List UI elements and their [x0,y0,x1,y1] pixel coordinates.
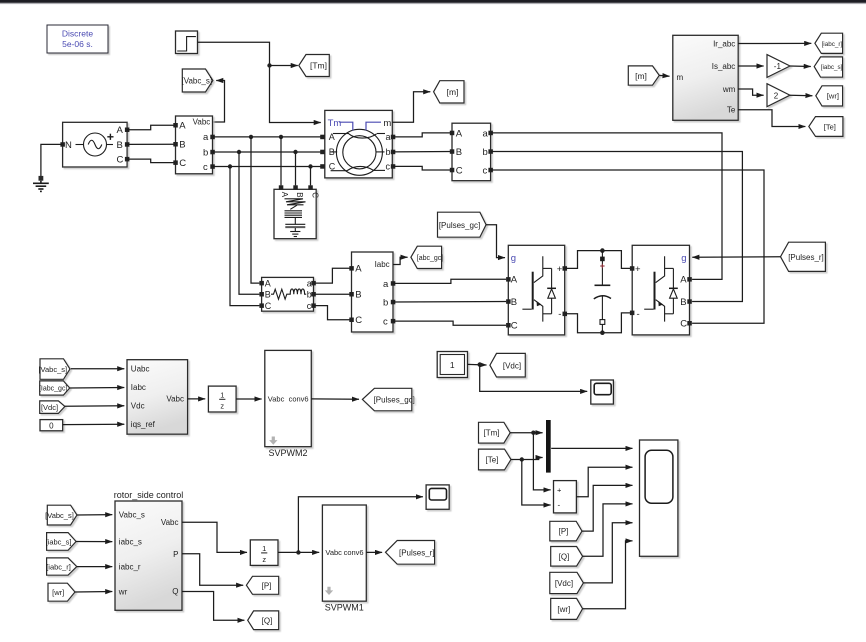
svg-text:A: A [456,128,463,139]
wire rotor control P to [P] [182,554,243,585]
svg-text:[Te]: [Te] [824,123,836,132]
svg-text:A: A [680,275,687,286]
wire to Vdc [65,405,124,407]
svg-text:[Q]: [Q] [262,616,273,625]
gain -1 [767,55,790,78]
svg-text:Vdc: Vdc [131,402,145,411]
wire machine m to [m] tag [392,92,430,122]
svg-text:a: a [203,132,209,143]
svg-text:[wr]: [wr] [827,92,839,101]
svg-text:b: b [203,147,208,158]
wire to wr [75,591,112,594]
from tag [wr] scope [551,598,583,619]
svg-text:2: 2 [774,91,779,100]
svg-text:B: B [456,147,462,158]
svg-text:[Tm]: [Tm] [484,429,500,438]
machine Tm lead [339,122,353,130]
svg-text:g: g [681,253,686,264]
svg-text:[Pulses_r]: [Pulses_r] [788,253,824,262]
wire machine c to meas2 C [392,166,452,170]
goto tag [P] lower [246,576,278,594]
wire to iabc_s [76,541,112,543]
wire [wr] to scope input 6 [583,541,633,609]
svg-text:A: A [179,121,186,132]
goto tag [wr] [816,86,843,106]
wire meas3 c to grid converter C [393,321,506,325]
wire unit delay to SVPWM2 [236,398,262,400]
svg-text:[Tm]: [Tm] [310,61,327,71]
svg-text:-: - [558,309,561,320]
svg-text:1: 1 [220,390,224,399]
grid side converter block [508,245,564,335]
wire meas3 Iabc to [abc_gc] tag [393,257,408,264]
grid converter IGBT diode icon [522,256,556,321]
svg-text:0: 0 [49,421,54,430]
source port labels [65,125,124,165]
svg-text:m: m [677,73,684,82]
svg-text:+: + [557,264,563,275]
from tag [P] scope [550,521,582,541]
goto tag [Tm] [299,55,330,77]
wire branch to scope3 [298,497,423,553]
svg-text:1: 1 [450,360,455,370]
svg-text:iabc_r: iabc_r [119,563,141,572]
wire tap c to RL filter C [230,167,259,306]
svg-text:[Te]: [Te] [486,456,499,465]
from tag [Iabc_gc] [39,381,70,395]
svg-text:Te: Te [727,106,736,115]
junction dot delay branch [296,550,300,554]
wire SVPWM1 to [Pulses_r] [366,551,382,553]
wire [m] to demux [659,74,669,77]
three-phase VI measurement block 2 [452,123,491,181]
svg-text:B: B [355,290,361,301]
gain 2 [767,84,790,107]
from tag [iabc_r] [46,558,77,575]
svg-text:C: C [265,301,272,311]
svg-text:Is_abc: Is_abc [712,62,736,71]
dc link top wire [565,251,633,269]
meas3 port squares [349,266,395,323]
svg-text:[m]: [m] [447,87,459,97]
grounding transformer rotated labels A B C [280,192,319,199]
svg-text:[iabc_r]: [iabc_r] [46,563,71,572]
asynchronous machine block [325,110,393,177]
wire to Iabc [70,387,125,390]
svg-text:conv6: conv6 [289,395,309,404]
from tag [Vabc_s] grid control [38,359,70,380]
svg-text:+: + [557,486,562,495]
wire bus a [213,136,323,138]
wire to iabc_r [77,566,112,568]
SVPWM1 subsystem [322,505,366,601]
rotor converter port labels [635,253,687,330]
junction dot Te branch [520,457,524,461]
meas1 port squares [173,123,215,169]
dc link bottom wire [565,313,633,333]
wire meas3 b to grid converter B [393,301,506,304]
step source block [176,31,198,54]
svg-text:B: B [329,147,335,157]
machine port squares [320,135,395,169]
svg-text:A: A [117,125,124,136]
svg-text:C: C [329,162,336,172]
goto tag [m] [434,81,464,103]
grounding transformer winding icon [285,199,306,237]
wire SVPWM2 to [Pulses_gc] [311,398,359,400]
svg-text:[Vabc_s]: [Vabc_s] [45,511,74,520]
svg-text:Iabc: Iabc [375,260,390,269]
svg-text:Iabc: Iabc [131,383,146,392]
svg-text:conv6: conv6 [344,548,364,557]
goto tag [abc_gc] [411,246,443,268]
junction dots bus a [249,135,253,139]
wire [Pulses_gc] to grid converter g [486,225,505,258]
wire unit delay 2 to SVPWM1 [278,551,319,553]
svg-text:[Pulses_gc]: [Pulses_gc] [439,221,480,230]
wire source B to meas [127,143,175,145]
wire Ir_abc to [iabc_r] [738,42,811,44]
title bar [0,0,866,4]
goto tag [Te] [809,117,843,137]
wire [Tm] to mux [510,432,542,434]
svg-text:C: C [511,321,518,332]
svg-text:Vabc: Vabc [193,118,211,127]
svg-text:C: C [456,165,463,176]
svg-text:Ir_abc: Ir_abc [713,40,735,49]
machine m lead [366,122,381,130]
svg-text:a: a [483,128,489,139]
svg-text:a: a [307,278,312,288]
wire Vabc measurement to [Vabc_s] tag [213,81,225,123]
three-phase VI measurement block 3 Iabc [352,252,394,332]
svg-text:B: B [511,297,517,308]
svg-text:[Pulses_gc]: [Pulses_gc] [374,396,415,405]
svg-text:rotor_side control: rotor_side control [114,490,184,500]
svg-text:c: c [483,165,488,176]
svg-text:Discrete: Discrete [62,28,93,38]
svg-text:[iabc_s]: [iabc_s] [46,537,72,546]
wire RL a to meas3 A [314,268,352,283]
svg-text:a: a [386,132,391,142]
wire control Vabc to unit delay [188,398,206,400]
capacitor port markers [600,257,605,262]
rotor converter port squares [630,266,692,325]
svg-text:A: A [280,192,289,198]
unit delay block 2 [250,540,278,566]
svg-text:[Vdc]: [Vdc] [555,579,573,588]
wire branch to [Tm] [270,65,298,67]
machine stubs [331,134,386,171]
wire display branch to scope2 [480,365,588,392]
scope block 2 [591,380,614,404]
svg-text:[wr]: [wr] [52,588,64,597]
svg-text:[Vabc_s]: [Vabc_s] [182,77,213,86]
svg-text:Tm: Tm [328,118,342,129]
wire Te to [Te] [738,110,805,127]
rotor side converter block [632,245,689,335]
svg-text:b: b [386,147,391,157]
svg-text:z: z [262,555,266,564]
svg-text:[iabc_s]: [iabc_s] [821,64,843,71]
big scope block [640,440,678,556]
junction dot display branch [478,362,482,366]
wire tap b to grounding transformer [295,152,297,185]
wire meas2 a to rotor converter A [491,133,722,280]
svg-text:SVPWM1: SVPWM1 [325,602,364,612]
svg-text:c: c [307,301,312,311]
three-phase VI measurement block Vabc [176,116,213,174]
from tag [Vdc] scope [550,572,584,593]
wire rotor control Q to [Q] [182,592,244,621]
svg-text:z: z [220,401,224,410]
svg-text:[m]: [m] [635,71,647,81]
svg-text:wr: wr [118,587,128,596]
svg-text:N: N [65,140,72,151]
wire Tm branch to sum plus [533,433,550,490]
svg-text:iqs_ref: iqs_ref [131,420,156,429]
wire [Vdc] to scope input 5 [583,523,632,583]
wire source A to meas [127,125,175,130]
wire RL b to meas3 B [314,293,352,295]
svg-text:A: A [329,132,335,142]
svg-text:B: B [179,140,185,151]
SVPWM2 down arrow icon [269,437,277,445]
goto tag [Vabc_s] [182,69,213,92]
svg-text:g: g [511,253,516,264]
mux bar [546,420,551,473]
machine measurement demux block [673,35,738,120]
grid side control subsystem [127,360,188,435]
goto tag [Vdc] upper [490,353,525,377]
from tag [Q] scope [551,547,583,567]
wire sum to scope input 2 [576,467,632,497]
svg-text:B: B [295,192,304,197]
from tag [Pulses_r] [781,242,826,271]
dc link junction dots [600,248,605,253]
svg-text:-: - [558,501,561,510]
source port squares [60,128,129,162]
svg-text:B: B [680,297,686,308]
svg-text:b: b [307,289,312,299]
wire meas2 c to rotor converter C [491,170,764,323]
wire to Vabc_s [77,514,112,516]
junction dots bus b [237,150,241,154]
junction dots bus c [228,164,232,168]
svg-text:Vabc: Vabc [166,395,184,404]
from tag [Vabc_s] rotor [45,505,77,525]
wire meas3 a to grid converter A [393,279,506,283]
svg-text:C: C [117,154,124,165]
svg-text:[Vdc]: [Vdc] [41,403,58,412]
svg-text:P: P [173,550,178,559]
svg-text:[iabc_r]: [iabc_r] [822,41,843,48]
svg-text:[Vdc]: [Vdc] [503,361,521,370]
grounding transformer block [274,189,316,238]
sum block [554,481,577,513]
goto tag [iabc_r] [815,33,843,53]
source sine symbol [76,133,114,156]
svg-text:A: A [355,264,362,275]
RL filter resistor and inductor icon [271,289,306,299]
wire to iqs_ref [63,423,125,425]
SVPWM1 down arrow icon [325,587,333,595]
svg-text:c: c [203,162,208,173]
svg-text:[Pulses_r]: [Pulses_r] [399,548,435,557]
machine rotor circle [343,136,376,169]
from tag [iabc_s] [46,533,77,551]
svg-text:B: B [117,140,123,151]
svg-text:Q: Q [172,587,178,596]
svg-text:B: B [265,289,271,299]
wire machine a to meas2 A [392,133,452,137]
wire to Uabc [71,368,125,370]
unit delay block 1/z [208,386,236,412]
wire gain to [iabc_s] [790,65,811,68]
svg-text:-: - [637,309,640,320]
svg-text:+: + [635,264,641,275]
wire step to machine Tm [198,42,321,122]
wire bus c [213,166,323,168]
grid converter port squares [506,266,567,327]
powergui block Discrete [47,25,108,53]
goto tag [Pulses_r] lower [386,541,435,565]
ground symbol [33,176,49,192]
junction dot Tm branch [531,431,535,435]
wire rotor control Vabc to unit delay 2 [182,522,247,552]
wire tap b to RL filter B [239,152,259,294]
wire meas2 b to rotor converter B [491,152,743,302]
svg-text:c: c [386,162,391,172]
scope block 3 [426,485,449,509]
svg-text:A: A [511,275,518,286]
wire machine b to meas2 B [392,151,452,153]
from tag [Te] lower [479,449,512,470]
wire mux to scope input 1 [551,447,632,449]
from tag [Tm] lower [479,422,511,443]
three-phase series RL filter block [262,277,314,311]
wire wm to gain 2 [738,89,763,95]
goto tag [Pulses_gc] lower [362,388,414,411]
wire tap a to grounding transformer [280,137,282,186]
svg-text:5e-06 s.: 5e-06 s. [62,39,93,49]
wire gain to [wr] [790,94,812,97]
grid converter port labels [511,253,563,331]
svg-text:iabc_s: iabc_s [119,538,142,547]
svg-text:Vabc: Vabc [325,548,342,557]
svg-text:[P]: [P] [559,527,569,536]
svg-text:[abc_gc]: [abc_gc] [417,255,444,262]
svg-text:[wr]: [wr] [557,605,570,614]
svg-text:c: c [383,317,388,328]
three-phase source block [63,122,128,167]
wire [Q] to scope input 4 [583,504,633,556]
goto tag [Q] lower [248,611,279,630]
meas2 port squares [450,131,493,173]
wire [Te] to mux [511,458,543,460]
svg-text:C: C [680,319,687,330]
svg-text:wm: wm [722,85,736,94]
grounding transformer port squares [279,185,313,190]
wire display to [Vdc] goto [468,363,487,366]
svg-text:C: C [179,158,186,169]
svg-text:SVPWM2: SVPWM2 [268,448,307,458]
svg-text:C: C [310,192,319,198]
dc link capacitor [594,251,611,333]
svg-text:1: 1 [262,544,266,553]
svg-text:b: b [383,297,388,308]
svg-text:A: A [265,278,271,288]
wire tap a to RL filter A [251,137,259,283]
svg-text:Vabc: Vabc [268,395,285,404]
svg-text:m: m [383,118,391,129]
svg-text:-1: -1 [774,62,782,71]
wire source C to meas [127,159,175,163]
from tag [m] feeding demux [628,66,659,85]
svg-text:[Vabc_s]: [Vabc_s] [38,365,67,374]
svg-text:[Iabc_gc]: [Iabc_gc] [39,386,67,393]
wire bus b [213,151,323,153]
svg-text:[P]: [P] [262,581,272,590]
display block 1 [437,352,467,378]
constant 0 block [40,420,63,431]
wire N to ground [41,144,63,176]
wire [Pulses_r] to rotor converter g [692,256,780,259]
machine port labels [329,132,391,172]
svg-text:b: b [483,147,488,158]
from tag [Pulses_gc] [438,212,487,237]
machine stator circle [336,129,382,175]
rotor converter IGBT diode icon [644,256,678,321]
RL filter port squares [259,281,315,308]
junction dot step branch [267,63,271,67]
from tag [Vdc] [40,401,65,414]
wire Te branch to sum minus [522,460,551,506]
svg-text:Vabc_s: Vabc_s [119,511,145,520]
rotor side control subsystem [115,501,182,610]
svg-text:a: a [383,279,389,290]
svg-text:Vabc: Vabc [161,518,179,527]
svg-text:C: C [355,315,362,326]
svg-text:[Q]: [Q] [559,552,570,561]
wire [P] to scope input 3 [582,485,633,531]
from tag [wr] rotor [48,583,75,601]
svg-text:Uabc: Uabc [131,365,150,374]
goto tag [iabc_s] [814,57,842,77]
wire RL c to meas3 C [314,306,352,320]
SVPWM2 subsystem [265,350,312,446]
wire tap c to grounding transformer [310,167,312,186]
wire Is_abc to gain [738,65,763,67]
